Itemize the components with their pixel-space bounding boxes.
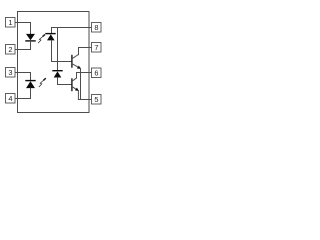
transistor Q1 bbox=[72, 54, 81, 69]
pin 1 bbox=[6, 18, 16, 28]
photodiode PD2 bbox=[53, 71, 62, 78]
pin 2 bbox=[6, 45, 16, 55]
pin 8 bbox=[92, 23, 102, 33]
photodiode PD1 bbox=[46, 28, 55, 41]
svg-text:6: 6 bbox=[94, 68, 98, 77]
svg-text:5: 5 bbox=[94, 95, 98, 104]
svg-text:3: 3 bbox=[8, 68, 12, 77]
wire pin3 to LED D2 cathode bbox=[15, 73, 31, 81]
Vcc rail to pin 8 bbox=[52, 27, 92, 29]
svg-text:8: 8 bbox=[94, 23, 98, 32]
LED D2 bbox=[26, 81, 35, 89]
light arrow channel 2 bbox=[39, 78, 46, 87]
package outline U1 bbox=[18, 12, 90, 113]
wire Q1 collector to pin 7 bbox=[79, 48, 92, 55]
transistor Q2 bbox=[72, 78, 79, 91]
svg-text:2: 2 bbox=[8, 45, 12, 54]
wire LED D2 anode to pin4 bbox=[15, 88, 31, 98]
wire PD1 anode to Q1 base bbox=[52, 40, 72, 61]
wire pin1 to LED D1 anode bbox=[15, 23, 31, 34]
wire PD2 anode to Q2 base bbox=[58, 78, 72, 85]
Vcc drop wire to photodiode PD2 bbox=[57, 28, 59, 71]
pin 7 bbox=[92, 43, 102, 53]
pin 4 bbox=[6, 94, 16, 104]
pin 6 bbox=[92, 68, 102, 78]
wire LED D1 cathode to pin2 bbox=[15, 41, 31, 49]
wire Q2 emitter to GND bbox=[77, 91, 79, 100]
light arrow channel 1 bbox=[38, 34, 45, 43]
pin 5 bbox=[92, 95, 102, 105]
svg-text:4: 4 bbox=[8, 94, 12, 103]
wire Q1 emitter down to GND bbox=[80, 68, 82, 99]
wire Q2 collector to pin 6 bbox=[77, 73, 92, 79]
svg-text:1: 1 bbox=[8, 18, 12, 27]
svg-text:7: 7 bbox=[94, 43, 98, 52]
GND wire to pin 5 bbox=[78, 99, 91, 101]
pin 3 bbox=[6, 68, 16, 78]
LED D1 bbox=[26, 34, 35, 41]
